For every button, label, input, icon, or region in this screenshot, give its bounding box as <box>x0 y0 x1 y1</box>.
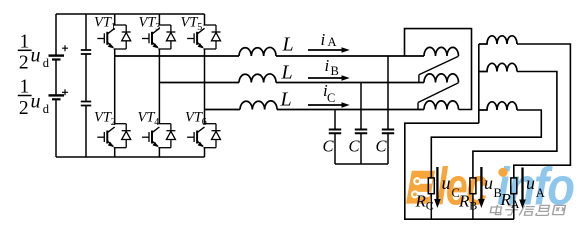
svg-text:C: C <box>349 137 361 156</box>
watermark stylized E block <box>406 171 435 204</box>
wire: phase C line with inductor L <box>205 109 241 111</box>
svg-text:B: B <box>331 64 339 78</box>
resistor RC <box>428 178 434 194</box>
svg-text:C: C <box>327 91 335 105</box>
transistor VT2 with diode <box>97 124 130 148</box>
current arrow iA <box>308 49 343 51</box>
inductor L phase C <box>240 101 277 110</box>
capacitor C phase C branch <box>334 110 336 129</box>
transistor VT4 with diode <box>142 124 175 148</box>
label 1/2 ud upper <box>18 32 50 74</box>
wire: leg 3 vertical segments <box>204 14 206 157</box>
wire: bottom DC bus <box>56 156 205 158</box>
wire: secondary B to load RB <box>473 72 557 178</box>
svg-text:R: R <box>458 192 470 211</box>
子 <box>504 206 519 215</box>
resistor RB <box>470 178 476 194</box>
wire: leg 2 vertical segments <box>158 14 160 157</box>
svg-text:1: 1 <box>111 22 116 33</box>
transistor VT1 with diode <box>97 25 130 49</box>
svg-text:i: i <box>321 30 326 49</box>
wire: capacitor common bus <box>335 163 388 165</box>
svg-text:VT: VT <box>181 15 199 31</box>
voltage arrow uA <box>521 168 523 201</box>
svg-text:6: 6 <box>202 117 207 128</box>
svg-text:R: R <box>415 192 427 211</box>
transformer secondary winding B <box>479 63 517 71</box>
watermark text Elecinfo <box>437 157 574 217</box>
transformer secondary winding A <box>479 36 517 44</box>
current arrow iC <box>308 104 343 106</box>
voltage arrow uB <box>480 167 482 200</box>
wire: phase B line with inductor L <box>159 82 239 84</box>
wire: left source bus segments <box>55 14 57 157</box>
transistor VT6 with diode <box>187 124 220 148</box>
svg-text:u: u <box>31 44 41 66</box>
wire: top DC bus <box>56 13 205 15</box>
svg-text:2: 2 <box>19 98 29 119</box>
transformer secondary winding C <box>479 102 517 110</box>
svg-text:3: 3 <box>155 22 160 33</box>
svg-text:u: u <box>442 173 451 193</box>
source battery lower (1/2 ud) <box>49 94 65 96</box>
svg-text:u: u <box>526 173 535 193</box>
网 <box>553 205 566 214</box>
capacitor dc-link lower <box>81 102 91 106</box>
label 1/2 ud lower <box>18 77 50 119</box>
svg-text:i: i <box>325 56 330 75</box>
svg-text:1: 1 <box>20 77 30 98</box>
wire: secondary star vertical <box>478 44 480 123</box>
capacitor C phase A branch <box>387 56 389 129</box>
svg-text:VT: VT <box>138 110 156 126</box>
svg-text:VT: VT <box>185 110 203 126</box>
息 <box>536 205 550 215</box>
resistor RA <box>511 178 517 194</box>
transistor VT3 with diode <box>142 25 175 49</box>
wire: neutral return and load bottom bus <box>405 123 514 219</box>
svg-text:d: d <box>43 102 50 116</box>
svg-text:A: A <box>536 186 545 200</box>
svg-text:VT: VT <box>94 15 112 31</box>
svg-text:A: A <box>328 35 337 49</box>
svg-text:2: 2 <box>111 117 116 128</box>
wire: secondary C to load RC <box>431 110 541 178</box>
transformer primary winding B (coil + delta diagonal) <box>424 74 459 83</box>
inductor L phase B <box>239 74 276 83</box>
wire: leg 1 vertical segments <box>114 14 116 157</box>
svg-text:L: L <box>281 61 293 83</box>
plus sign lower source <box>62 89 68 95</box>
capacitor dc-link upper <box>81 50 91 54</box>
svg-text:VT: VT <box>94 110 112 126</box>
transformer primary winding C (coil + return path box) <box>424 101 459 110</box>
svg-text:A: A <box>511 197 520 211</box>
svg-text:B: B <box>469 199 477 213</box>
svg-text:2: 2 <box>19 53 29 74</box>
电 <box>490 205 503 215</box>
watermark CJK line 电子信息网 (hand-drawn glyphs) <box>490 205 566 215</box>
current arrow iB <box>308 77 343 79</box>
wire: delta return path from winding C to phase A <box>405 29 472 110</box>
svg-text:u: u <box>484 173 493 193</box>
wire: secondary A to load RA <box>514 44 571 178</box>
source battery upper (1/2 ud) <box>49 54 65 56</box>
svg-text:L: L <box>280 88 292 110</box>
svg-text:4: 4 <box>154 117 159 128</box>
信 <box>519 205 535 215</box>
svg-text:C: C <box>376 137 388 156</box>
svg-text:VT: VT <box>139 15 157 31</box>
transistor VT5 with diode <box>187 25 220 49</box>
svg-text:d: d <box>43 56 50 70</box>
wire: phase A line with inductor L <box>115 55 239 57</box>
plus sign upper source <box>62 45 68 51</box>
svg-text:u: u <box>31 91 41 113</box>
svg-text:1: 1 <box>20 32 30 53</box>
voltage arrow uC <box>436 167 438 200</box>
svg-text:5: 5 <box>197 22 202 33</box>
svg-text:C: C <box>323 137 335 156</box>
svg-text:C: C <box>426 199 434 213</box>
wire: DC-link rail segments <box>85 14 87 157</box>
svg-text:L: L <box>282 34 294 56</box>
inductor L phase A <box>239 47 276 56</box>
capacitor C phase B branch <box>360 83 362 129</box>
svg-text:R: R <box>500 190 512 209</box>
transformer primary winding A (coil + delta diagonal) <box>424 47 459 56</box>
